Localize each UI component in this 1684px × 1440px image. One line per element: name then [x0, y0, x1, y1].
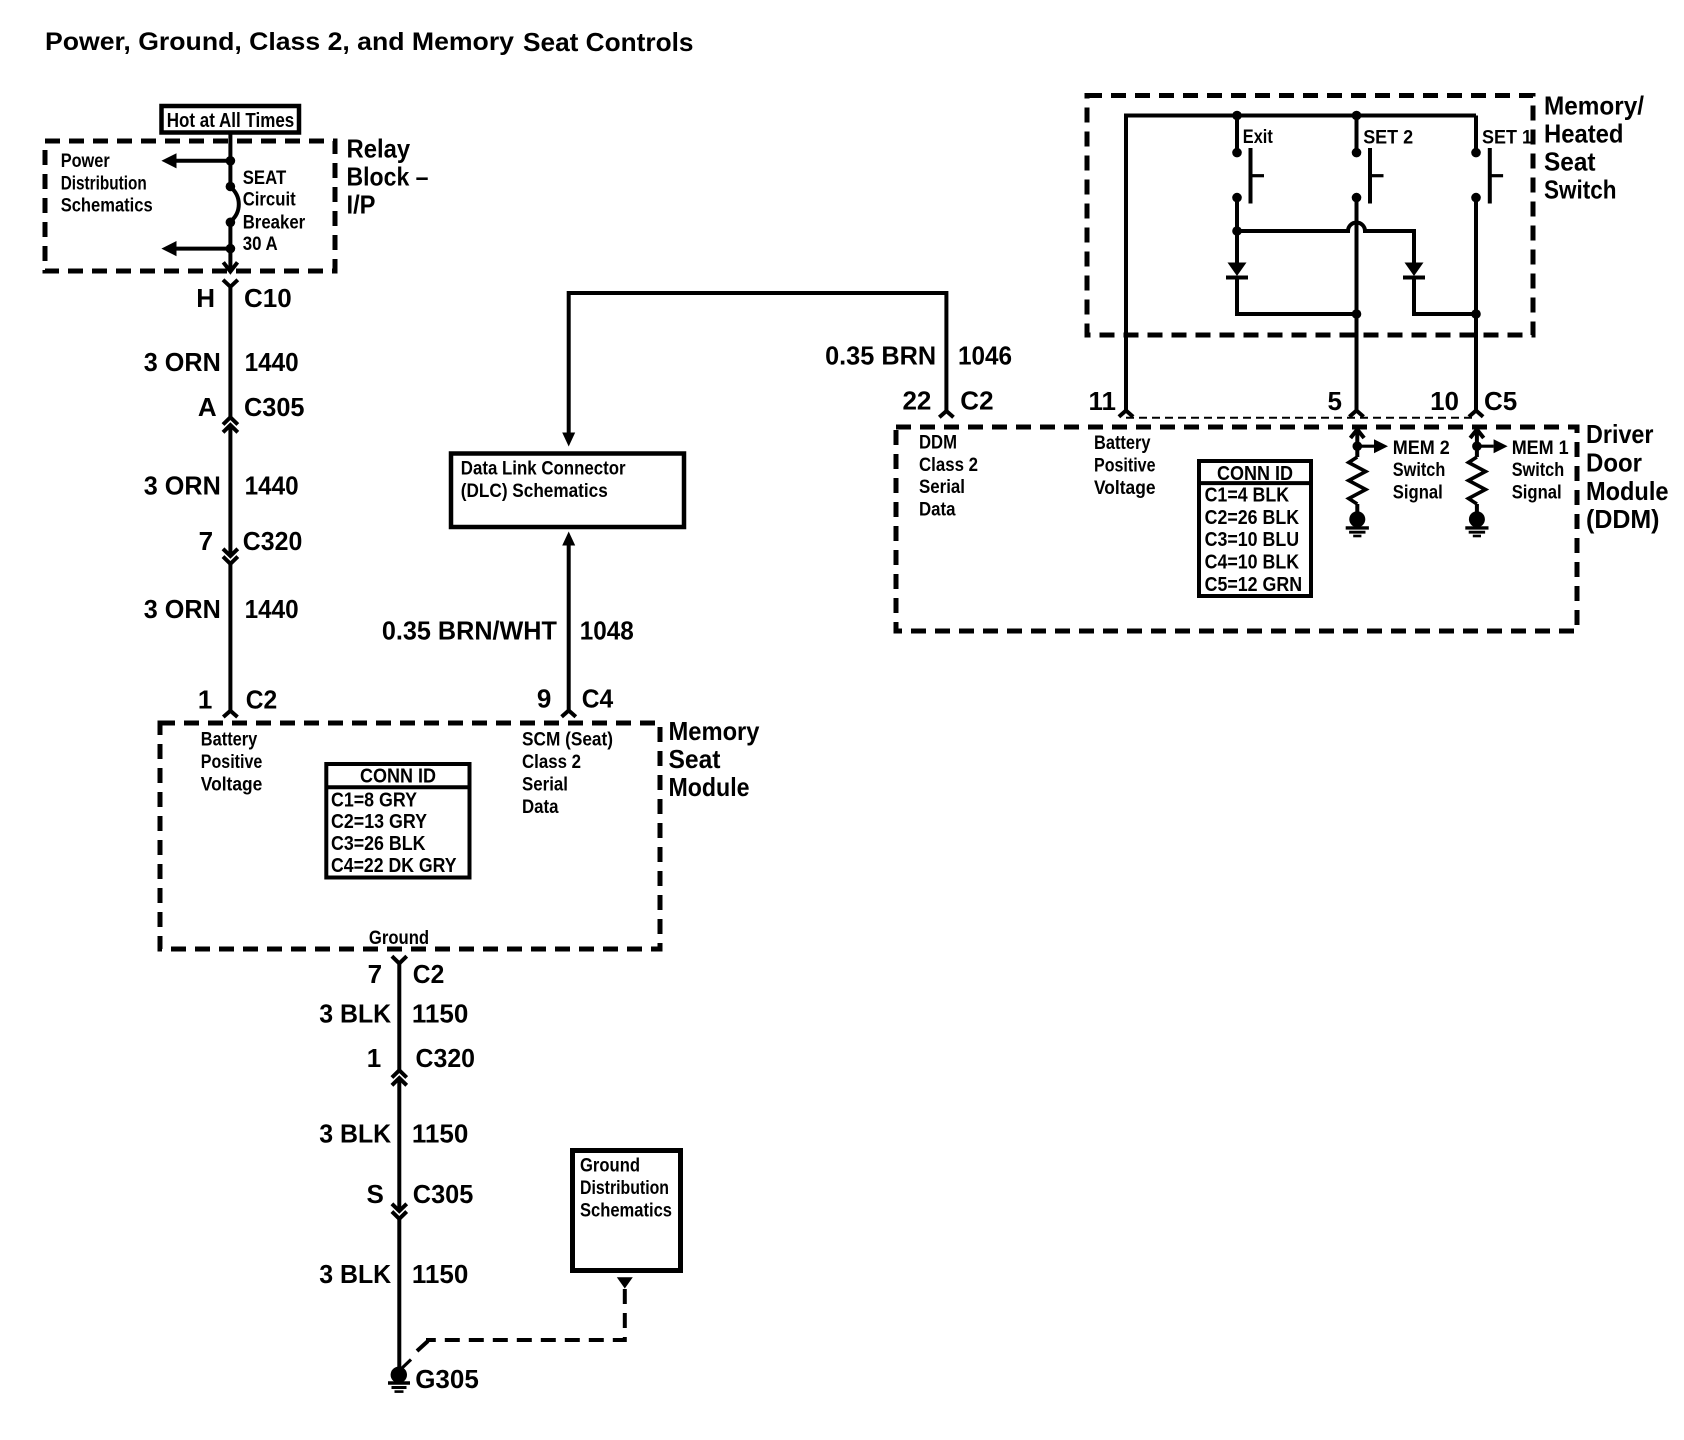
in-line connector C320 chevrons (ground)	[392, 1070, 407, 1085]
svg-text:C2=26 BLK: C2=26 BLK	[1205, 507, 1300, 529]
svg-text:1150: 1150	[412, 1119, 468, 1149]
svg-text:3 BLK: 3 BLK	[319, 999, 391, 1029]
svg-text:Signal: Signal	[1393, 483, 1443, 504]
svg-text:C5=12 GRN: C5=12 GRN	[1205, 574, 1303, 596]
CONN ID table (DDM)	[1199, 461, 1311, 596]
svg-text:SET 1: SET 1	[1482, 128, 1532, 149]
svg-text:1: 1	[367, 1043, 381, 1073]
svg-text:SEAT: SEAT	[243, 168, 287, 189]
svg-text:Module: Module	[1586, 476, 1669, 506]
connector C10 female half	[223, 280, 238, 418]
svg-text:3 BLK: 3 BLK	[319, 1119, 391, 1149]
in-line connector C305 chevrons	[223, 417, 238, 432]
svg-text:C2: C2	[413, 959, 445, 989]
label SEAT Circuit Breaker 30 A	[243, 168, 306, 255]
svg-text:C4: C4	[582, 684, 614, 714]
connector pin legs at DDM pin 11	[1119, 411, 1133, 417]
connector C5 dashed span line	[1126, 417, 1477, 419]
svg-text:Relay: Relay	[347, 134, 411, 164]
svg-text:Schematics: Schematics	[580, 1200, 672, 1221]
svg-text:Voltage: Voltage	[201, 775, 262, 796]
svg-text:Power, Ground, Class 2, and Me: Power, Ground, Class 2, and Memory	[45, 28, 514, 56]
wire label 3 BLK 1150 (segment 1)	[319, 999, 468, 1029]
svg-text:Exit: Exit	[1243, 127, 1274, 148]
breaker terminal node top	[226, 182, 236, 192]
wire label 3 BLK 1150 (segment 2)	[319, 1119, 468, 1149]
svg-text:1048: 1048	[580, 616, 634, 646]
label Battery Positive Voltage (DDM)	[1094, 433, 1156, 499]
svg-text:Ground: Ground	[369, 928, 429, 949]
svg-text:Power: Power	[61, 151, 111, 172]
DLC feed horizontal wire 0.35 BRN 1046	[569, 293, 947, 433]
junction node on SET2 wire	[1352, 309, 1362, 319]
MEM 1 signal arrow	[1477, 439, 1508, 453]
svg-text:C4=10 BLK: C4=10 BLK	[1205, 552, 1300, 574]
connector pin legs at MSM pin 1	[223, 711, 237, 717]
svg-text:C320: C320	[416, 1043, 476, 1073]
SEAT circuit breaker 30 A (arc)	[230, 187, 238, 222]
Data Link Connector box	[451, 454, 684, 528]
ground G305 symbol	[388, 1367, 410, 1392]
label Memory Seat Module	[669, 716, 760, 802]
svg-text:C3=10 BLU: C3=10 BLU	[1205, 529, 1300, 551]
svg-text:A: A	[198, 392, 217, 422]
svg-text:1440: 1440	[245, 347, 299, 377]
svg-text:Data: Data	[522, 797, 559, 818]
wire diode D1 to SET2 wire	[1237, 278, 1357, 315]
svg-text:Class 2: Class 2	[522, 752, 581, 773]
label MEM 1 Switch Signal	[1512, 438, 1569, 504]
svg-text:Circuit: Circuit	[243, 189, 297, 210]
svg-text:Data Link Connector: Data Link Connector	[461, 459, 626, 480]
resistor R1 (MEM 2 pull-down)	[1349, 446, 1366, 512]
svg-text:Data: Data	[919, 500, 956, 521]
MEM 1 signal node	[1472, 441, 1482, 451]
svg-text:SCM (Seat): SCM (Seat)	[522, 730, 613, 751]
SET 1 switch	[1471, 116, 1503, 204]
svg-text:Door: Door	[1586, 448, 1642, 478]
in-line connector C305 chevrons (ground)	[392, 1204, 407, 1219]
wire label 0.35 BRN/WHT 1048	[382, 616, 634, 646]
svg-text:Memory/: Memory/	[1544, 91, 1644, 121]
svg-text:Battery: Battery	[1094, 433, 1151, 454]
svg-text:1046: 1046	[958, 341, 1012, 371]
svg-text:C2=13 GRY: C2=13 GRY	[331, 811, 428, 833]
svg-text:Class 2: Class 2	[919, 455, 978, 476]
connector pin legs at DDM pin 10	[1469, 411, 1483, 417]
junction node on SET1 wire	[1471, 309, 1481, 319]
svg-text:3 BLK: 3 BLK	[319, 1259, 391, 1289]
wire label 3 BLK 1150 (segment 3)	[319, 1259, 468, 1289]
svg-text:H: H	[196, 283, 215, 313]
connector pin legs at MSM pin 9	[562, 711, 576, 717]
wire label 3 ORN 1440 (segment 3)	[144, 594, 299, 624]
svg-text:Ground: Ground	[580, 1156, 640, 1177]
svg-text:Switch: Switch	[1393, 460, 1446, 481]
connector pin legs at DDM pin 5	[1349, 411, 1363, 417]
wire C305 to G305	[397, 1219, 401, 1370]
wire label 3 ORN 1440 (segment 2)	[144, 470, 299, 500]
diode D1	[1226, 263, 1248, 278]
svg-text:C10: C10	[244, 283, 292, 313]
svg-text:Seat: Seat	[669, 744, 721, 774]
svg-text:C305: C305	[244, 392, 305, 422]
diode D2	[1403, 263, 1425, 278]
svg-text:(DLC) Schematics: (DLC) Schematics	[461, 481, 608, 502]
wire breaker to bottom arrow junction	[228, 222, 232, 264]
Driver Door Module dashed box	[896, 427, 1577, 631]
svg-text:C2: C2	[246, 685, 278, 715]
svg-text:Signal: Signal	[1512, 483, 1562, 504]
svg-text:Serial: Serial	[919, 477, 965, 498]
wire exit junction to diode 2 branch (with hop over SET2 wire)	[1237, 223, 1414, 263]
wire SET 2 switch to DDM pin 5	[1355, 198, 1359, 411]
svg-text:C305: C305	[413, 1179, 474, 1209]
svg-text:Seat Controls: Seat Controls	[523, 27, 694, 57]
label SCM (Seat) Class 2 Serial Data	[522, 730, 613, 818]
svg-text:C1=4 BLK: C1=4 BLK	[1205, 484, 1290, 506]
svg-text:C3=26 BLK: C3=26 BLK	[331, 833, 426, 855]
svg-text:SET 2: SET 2	[1363, 128, 1413, 149]
resistor R2 (MEM 1 pull-down)	[1468, 446, 1485, 512]
arrow out of relay block	[223, 262, 237, 271]
svg-text:0.35 BRN/WHT: 0.35 BRN/WHT	[382, 616, 557, 646]
wire diode D2 to SET1 wire	[1414, 278, 1476, 315]
svg-text:1150: 1150	[412, 999, 468, 1029]
junction node exit	[1232, 226, 1242, 236]
svg-text:C5: C5	[1484, 386, 1517, 416]
svg-text:DDM: DDM	[919, 432, 957, 453]
Hot at All Times box	[162, 106, 300, 133]
SET 2 switch	[1352, 111, 1384, 204]
svg-text:9: 9	[537, 684, 551, 714]
MEM 1 input arrow chevron	[1470, 430, 1484, 447]
svg-text:Positive: Positive	[201, 752, 262, 773]
wire from Hot at All Times to breaker	[228, 133, 232, 188]
svg-text:7: 7	[199, 526, 213, 556]
Exit switch	[1232, 111, 1264, 204]
Ground Distribution Schematics box	[573, 1151, 681, 1271]
Memory/Heated Seat Switch dashed box	[1087, 96, 1533, 336]
svg-text:Hot at All Times: Hot at All Times	[167, 110, 295, 132]
wire label 3 ORN 1440 (segment 1)	[144, 347, 299, 377]
arrow below GDS box	[617, 1277, 633, 1288]
svg-text:Heated: Heated	[1544, 119, 1624, 149]
svg-text:Module: Module	[669, 772, 750, 802]
wire C320 to memory seat module	[228, 564, 232, 711]
svg-text:C2: C2	[960, 386, 993, 416]
arrow into DLC box	[562, 433, 575, 447]
label Battery Positive Voltage (MSM)	[201, 730, 262, 796]
svg-text:5: 5	[1328, 386, 1342, 416]
label Memory/Heated Seat Switch	[1544, 91, 1644, 205]
svg-text:0.35 BRN: 0.35 BRN	[825, 341, 936, 371]
svg-text:Positive: Positive	[1094, 456, 1156, 477]
junction node (bottom arrow)	[226, 244, 236, 254]
svg-text:Block –: Block –	[347, 162, 429, 192]
MEM 2 signal node	[1353, 441, 1363, 451]
svg-text:22: 22	[902, 386, 931, 416]
svg-text:S: S	[367, 1179, 384, 1209]
svg-text:7: 7	[368, 959, 382, 989]
svg-text:(DDM): (DDM)	[1586, 504, 1660, 534]
svg-text:Switch: Switch	[1544, 175, 1617, 205]
arrow to power distribution (top)	[161, 153, 230, 168]
wire C320 to C305 (ground)	[397, 1078, 401, 1211]
label Driver Door Module (DDM)	[1586, 419, 1669, 534]
label MEM 2 Switch Signal	[1393, 438, 1450, 504]
svg-text:Seat: Seat	[1544, 147, 1596, 177]
svg-text:Schematics: Schematics	[61, 196, 153, 217]
MEM 2 input arrow chevron	[1351, 430, 1365, 447]
svg-text:C1=8 GRY: C1=8 GRY	[331, 789, 418, 811]
svg-text:Memory: Memory	[669, 716, 760, 746]
svg-text:Switch: Switch	[1512, 460, 1565, 481]
Memory Seat Module dashed box	[160, 723, 660, 949]
wire Exit switch to junction	[1235, 198, 1239, 263]
svg-text:1150: 1150	[412, 1259, 468, 1289]
svg-text:C4=22 DK GRY: C4=22 DK GRY	[331, 855, 457, 877]
svg-text:C320: C320	[243, 526, 302, 556]
Relay Block dashed box	[45, 141, 335, 271]
svg-text:Voltage: Voltage	[1094, 478, 1156, 499]
svg-text:Serial: Serial	[522, 775, 568, 796]
chassis ground (MEM 2)	[1346, 511, 1369, 536]
breaker terminal node bottom	[226, 218, 236, 228]
connector pin legs at DDM pin 22	[939, 411, 953, 417]
svg-text:I/P: I/P	[347, 190, 376, 220]
svg-text:1440: 1440	[245, 470, 299, 500]
label Relay Block - I/P	[347, 134, 429, 220]
wire SCM class 2 serial data	[567, 546, 571, 711]
connector 7 C2 female half below MSM	[392, 956, 407, 1070]
arrow from SCM up into DLC box	[562, 532, 575, 546]
svg-text:Distribution: Distribution	[61, 173, 147, 194]
label DDM Class 2 Serial Data	[919, 432, 978, 520]
svg-text:10: 10	[1430, 386, 1459, 416]
svg-text:1: 1	[198, 685, 212, 715]
svg-text:CONN ID: CONN ID	[1217, 463, 1293, 485]
wire label 0.35 BRN 1046	[825, 341, 1012, 371]
svg-text:3 ORN: 3 ORN	[144, 470, 221, 500]
switch feed top wire	[1126, 116, 1476, 411]
dashed reference wire GDS to G305	[426, 1289, 625, 1340]
svg-text:3 ORN: 3 ORN	[144, 347, 221, 377]
svg-text:MEM 1: MEM 1	[1512, 438, 1569, 459]
chassis ground (MEM 1)	[1465, 511, 1488, 536]
svg-text:Driver: Driver	[1586, 419, 1654, 449]
in-line connector C320 chevrons	[223, 549, 238, 564]
svg-text:CONN ID: CONN ID	[360, 766, 436, 788]
splice tick at G305	[401, 1360, 412, 1370]
arrow to power distribution (bottom)	[161, 241, 230, 256]
svg-text:30 A: 30 A	[243, 234, 278, 255]
svg-text:11: 11	[1089, 386, 1117, 416]
svg-text:1440: 1440	[245, 594, 299, 624]
label Power Distribution Schematics	[61, 151, 153, 217]
wire C305 to C320	[228, 425, 232, 556]
MEM 2 signal arrow	[1357, 439, 1388, 453]
svg-text:Battery: Battery	[201, 730, 258, 751]
svg-text:MEM 2: MEM 2	[1393, 438, 1450, 459]
svg-text:3 ORN: 3 ORN	[144, 594, 221, 624]
svg-text:Distribution: Distribution	[580, 1178, 669, 1199]
junction node (top arrow)	[226, 156, 236, 166]
svg-text:G305: G305	[415, 1364, 479, 1394]
CONN ID table (MSM)	[326, 764, 469, 878]
wire SET 1 switch to DDM pin 10	[1474, 198, 1478, 411]
svg-text:Breaker: Breaker	[243, 213, 306, 234]
